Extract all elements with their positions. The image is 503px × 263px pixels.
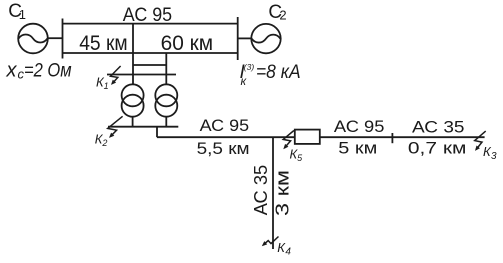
svg-text:5,5 км: 5,5 км [197,139,250,158]
node K2 bus [108,126,178,128]
junction tick [391,133,393,143]
left bus [62,19,64,59]
wire connector between taps [133,64,166,66]
svg-text:АС 95: АС 95 [334,117,385,136]
wire branch down AC35 [272,137,274,249]
transformer T1 [122,84,144,116]
fault K4 [262,237,279,247]
transformer T2 [155,84,177,116]
svg-text:=2 Ом: =2 Ом [24,59,72,81]
svg-text:3 км: 3 км [273,170,293,216]
wire T1 bottom [132,117,134,127]
right bus [237,17,239,60]
node K1 bus [107,74,176,76]
svg-text:АС 95: АС 95 [200,116,250,135]
wire line 5.5 km [157,136,295,138]
wire transformer T2 feed [165,53,167,84]
svg-text:(3): (3) [244,62,255,72]
svg-text:0,7 км: 0,7 км [408,139,467,158]
wire C1 to left bus [47,37,62,39]
svg-text:5 км: 5 км [338,138,377,157]
svg-text:х: х [6,59,18,81]
svg-text:2: 2 [279,8,286,23]
svg-text:60 км: 60 км [161,32,214,55]
svg-text:=8 кА: =8 кА [256,62,301,83]
svg-text:45 км: 45 км [79,32,128,55]
svg-text:1: 1 [104,81,109,91]
wire step down [156,127,158,138]
wire T2 bottom [165,117,167,127]
svg-text:3: 3 [491,151,497,162]
reactor rectangle [295,130,320,144]
fault K1 [111,66,121,85]
svg-text:4: 4 [285,247,291,258]
svg-text:2: 2 [101,138,107,148]
svg-text:АС 35: АС 35 [412,118,465,137]
generator C2 [251,24,280,53]
wire middle tap [132,24,134,85]
wire top line AC95 [63,23,238,25]
svg-text:АС 35: АС 35 [251,165,271,216]
wire second line [63,52,238,54]
svg-text:1: 1 [19,7,26,22]
fault K3 [475,131,486,151]
fault K5 [283,131,294,150]
svg-text:АС 95: АС 95 [123,5,172,26]
wire C2 to right bus [238,37,252,39]
fault K2 [108,116,123,138]
generator C1 [18,24,48,54]
wire line 5 km and 0.7 km [320,136,485,138]
